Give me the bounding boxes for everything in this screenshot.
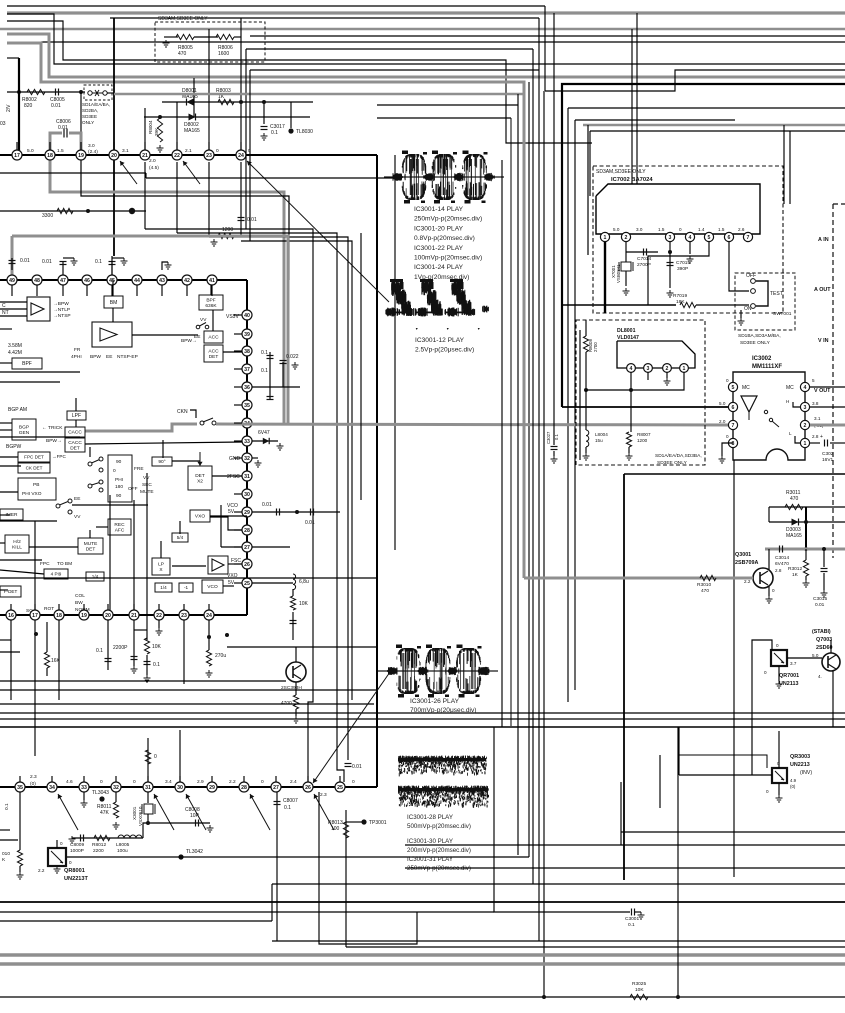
wire stub rowA pin 50 <box>49 142 51 150</box>
ground pin33 <box>81 800 88 807</box>
pin 25 row E <box>335 782 345 792</box>
function block BGP GEN <box>12 419 36 440</box>
IC7002 pin 1 <box>600 232 609 241</box>
svg-text:▼: ▼ <box>415 327 418 331</box>
wire pin23 dropd <box>183 620 185 684</box>
wire vert pin24 drop <box>240 18 242 155</box>
ground R8007 <box>626 453 633 460</box>
switch CKN <box>200 421 204 425</box>
wire Q3001 collector <box>768 552 770 570</box>
svg-text:2.6: 2.6 <box>738 227 745 232</box>
svg-text:0: 0 <box>60 841 63 846</box>
wire stub rowD pin 184 <box>183 604 185 610</box>
wire 10K link <box>146 630 148 640</box>
wire FSC to pin26 <box>228 563 242 565</box>
svg-text:NT: NT <box>2 310 9 316</box>
svg-text:MC: MC <box>786 385 794 391</box>
svg-text:010: 010 <box>2 851 10 857</box>
pin 22 row A <box>172 150 182 160</box>
svg-text:ACC: ACC <box>208 335 219 341</box>
wire net y102 <box>162 101 313 103</box>
wire DL pin4 down <box>630 372 632 432</box>
svg-text:1200: 1200 <box>222 227 233 233</box>
svg-text:1.5: 1.5 <box>57 148 64 154</box>
wire cap 0.01 left stub <box>11 258 13 270</box>
wire pin31 up <box>147 738 149 782</box>
svg-text:FPC DET: FPC DET <box>24 455 44 460</box>
wire 10K-cap <box>146 655 148 675</box>
svg-text:0: 0 <box>216 148 219 154</box>
wire stub colC pin 29 <box>234 511 242 513</box>
svg-text:2.2: 2.2 <box>38 868 45 873</box>
pin 20 row A <box>109 150 119 160</box>
test point TL8030 <box>288 128 293 133</box>
wire bottom y947 <box>346 946 845 948</box>
wire TP3001 link <box>346 821 362 823</box>
svg-text:42: 42 <box>184 278 190 284</box>
svg-text:26: 26 <box>305 785 311 791</box>
svg-text:250mVp-p(20msec.div): 250mVp-p(20msec.div) <box>414 216 482 223</box>
wire y868 <box>405 867 845 869</box>
svg-text:X3001: X3001 <box>132 806 137 820</box>
svg-text:35: 35 <box>244 403 250 409</box>
svg-text:ROT: ROT <box>44 606 54 612</box>
wire det2 right <box>212 475 242 477</box>
wire gray right r3 <box>583 124 845 127</box>
svg-text:820: 820 <box>24 103 33 109</box>
svg-text:2.3: 2.3 <box>30 774 37 780</box>
svg-text:1/4: 1/4 <box>160 585 167 590</box>
wire L1 path <box>7 14 845 64</box>
IC7002 pin 6 <box>724 232 733 241</box>
wire bottom nest jog <box>319 792 417 944</box>
pin 34 row E <box>47 782 57 792</box>
wire QR7001 left route <box>752 640 772 775</box>
svg-text:▼: ▼ <box>446 327 449 331</box>
svg-text:27: 27 <box>273 785 279 791</box>
svg-text:COL: COL <box>75 593 85 599</box>
svg-text:SD3AM,SD3EE ONLY: SD3AM,SD3EE ONLY <box>596 169 646 175</box>
pin 31 col C <box>242 471 252 481</box>
function block LP X <box>152 558 170 575</box>
svg-text:LP: LP <box>158 561 164 567</box>
wire IC7002 pin4 drop <box>689 242 691 254</box>
transistor 2SC3930 <box>286 662 306 682</box>
svg-text:4.42M: 4.42M <box>8 350 22 356</box>
wire R8007 bot <box>628 447 630 453</box>
svg-text:TEST: TEST <box>770 291 783 297</box>
svg-text:A OUT: A OUT <box>814 287 831 293</box>
wire nest y49 <box>246 48 533 50</box>
svg-text:7: 7 <box>732 423 735 429</box>
wire gray C3014 <box>765 548 845 551</box>
callout arrow pin 31 <box>154 794 174 830</box>
resistor 1200 <box>218 233 234 238</box>
svg-text:0.01: 0.01 <box>42 259 52 265</box>
IC7002 pin 4 <box>685 232 694 241</box>
wire IC7002 pin5 route <box>648 242 709 305</box>
svg-text:0.1: 0.1 <box>628 922 635 928</box>
svg-text:1: 1 <box>604 235 607 241</box>
junction R3025 left <box>542 995 546 999</box>
function block CK DET <box>18 463 50 473</box>
svg-text:0.1: 0.1 <box>284 805 291 811</box>
wire QR8001 top <box>56 840 58 848</box>
wire bottom y884 <box>272 883 845 885</box>
function block PB VXO <box>18 478 56 500</box>
svg-text:39: 39 <box>244 332 250 338</box>
pin 36 col C <box>242 382 252 392</box>
svg-text:28: 28 <box>244 528 250 534</box>
wire vert pin22 drop low <box>176 162 178 233</box>
svg-text:DET: DET <box>195 473 205 479</box>
svg-text:4700: 4700 <box>281 700 292 706</box>
capacitor C3015 <box>821 568 828 570</box>
wire 16K bot <box>46 668 48 676</box>
wire cap 0.1 pin45 <box>111 262 113 275</box>
svg-text:39K: 39K <box>154 127 159 136</box>
wire IC3002 pin8 gnd <box>722 443 733 456</box>
svg-text:0.8Vp-p(20msec.div): 0.8Vp-p(20msec.div) <box>414 235 475 242</box>
wire QR3003 left <box>679 774 772 776</box>
wire stub colC pin 38 <box>234 350 242 352</box>
wire R3012 top <box>805 549 807 560</box>
svg-text:18: 18 <box>56 613 62 619</box>
wire LPX right <box>172 565 206 567</box>
svg-text:24: 24 <box>238 153 244 159</box>
junction 270u top <box>207 635 211 639</box>
IC3002 pin 8 left <box>728 438 737 447</box>
wire R8008 top <box>585 320 587 336</box>
svg-text:0.01: 0.01 <box>305 520 315 526</box>
switch VV/EE <box>196 325 200 329</box>
pin 33 col C <box>242 436 252 446</box>
resistor left edge <box>17 850 22 866</box>
wire sw gnd link <box>740 310 742 318</box>
svg-text:636K: 636K <box>205 303 217 309</box>
svg-text:ON: ON <box>744 306 752 312</box>
svg-text:DET: DET <box>86 547 96 553</box>
resistor R3012 <box>803 560 808 576</box>
function block quarter a <box>86 572 104 581</box>
function block FPC DET <box>18 452 50 462</box>
capacitor 0.1b rowD <box>144 661 151 663</box>
stub left y363 <box>0 362 12 364</box>
resistor R8008 <box>583 336 588 352</box>
svg-text:REC: REC <box>114 522 125 528</box>
jumper connector <box>88 91 92 95</box>
function block CACC <box>65 427 85 437</box>
ground SW7001 <box>738 318 745 325</box>
wire gray CACC out <box>85 424 197 431</box>
IC3002 internal switch <box>764 410 767 413</box>
junction 3300 net <box>86 209 90 213</box>
svg-text:OFF: OFF <box>128 486 138 492</box>
wire vert pin23 drop low <box>208 162 210 237</box>
wire left y382 <box>0 381 60 383</box>
svg-text:0.022: 0.022 <box>286 354 299 360</box>
function block VCO <box>202 580 223 593</box>
svg-text:→NTLP: →NTLP <box>53 307 70 313</box>
capacitor C3017 <box>261 126 268 128</box>
svg-text:0: 0 <box>679 227 682 232</box>
wire vert 632 <box>631 29 633 184</box>
svg-text:1600: 1600 <box>218 51 229 57</box>
svg-text:2: 2 <box>625 235 628 241</box>
svg-text:48: 48 <box>34 278 40 284</box>
wire stub colC pin 34 <box>234 422 242 424</box>
svg-text:UN2213T: UN2213T <box>64 876 89 882</box>
wire stub rowB pin 12 <box>11 285 13 296</box>
IC3002 pin 3 right <box>800 402 809 411</box>
wire internal v163 <box>162 440 164 458</box>
svg-text:0.1: 0.1 <box>153 662 160 668</box>
wire thick y407 to pin6 <box>562 406 733 408</box>
svg-text:1200: 1200 <box>637 438 648 443</box>
svg-text:470: 470 <box>178 51 187 57</box>
wire q-res bot <box>295 709 297 716</box>
wire stub rowB pin 187 <box>186 285 188 296</box>
svg-text:25: 25 <box>337 785 343 791</box>
pin 38 col C <box>242 346 252 356</box>
svg-text:5: 5 <box>812 378 815 383</box>
pin 26 row E <box>303 782 313 792</box>
wire internal v221 <box>220 505 222 547</box>
svg-text:IC3001-12 PLAY: IC3001-12 PLAY <box>415 337 465 344</box>
wire R8005-R8006 <box>194 36 218 38</box>
stub left y515 <box>0 514 10 516</box>
svg-text:0: 0 <box>352 779 355 785</box>
inductor 6.8u <box>293 574 296 590</box>
wire C3021 right <box>830 442 845 444</box>
wire IC7002 pin1 thick <box>604 242 606 313</box>
svg-text:L8004: L8004 <box>595 432 608 437</box>
wire BM down <box>112 308 114 322</box>
svg-text:→NTSP: →NTSP <box>53 313 71 319</box>
svg-text:3: 3 <box>804 405 807 411</box>
DL8001 pin 1 <box>680 364 689 373</box>
switch EE/VV <box>56 499 72 514</box>
svg-text:47K: 47K <box>100 810 110 816</box>
wire top bus 4 <box>41 41 845 43</box>
wire gray pin34 to IC3002 pin7 <box>216 424 733 425</box>
dashed jumper box <box>84 85 112 100</box>
waveform staircase IC3001-12 <box>385 279 489 317</box>
svg-text:PB: PB <box>33 482 39 488</box>
svg-text:BGP AM: BGP AM <box>8 407 27 413</box>
wire vert 790 <box>789 131 791 204</box>
capacitor C8008 <box>195 820 197 827</box>
wire stub rowB pin 112 <box>111 285 113 296</box>
ground C8009 <box>69 836 76 843</box>
wire Q7003 down <box>832 671 834 727</box>
IC3002 pin 6 left <box>728 402 737 411</box>
svg-text:19: 19 <box>81 613 87 619</box>
wire pin20d drop <box>107 620 109 670</box>
wire y640 stub <box>0 639 11 641</box>
wire stub rowE pin 84 <box>83 776 85 782</box>
svg-text:MM1111XF: MM1111XF <box>752 364 782 370</box>
function block 90deg <box>152 457 172 466</box>
wire dl left v <box>579 330 581 460</box>
wire vert x545 top <box>544 6 546 91</box>
IC3002 outline <box>733 372 805 460</box>
svg-text:IC3001-20 PLAY: IC3001-20 PLAY <box>414 225 464 232</box>
capacitor 2200P <box>131 656 138 658</box>
wire pin17 thick <box>18 58 20 155</box>
junction pin29 net <box>295 510 299 514</box>
DL8001 outline <box>617 341 695 368</box>
wire y437 internal <box>0 436 80 438</box>
wire nest y70 <box>250 69 539 71</box>
stub left y570 <box>0 570 44 574</box>
ground rowB b <box>71 258 78 265</box>
pin 41 row B <box>207 275 217 285</box>
svg-text:0.01: 0.01 <box>58 125 68 131</box>
wire pin43 gnd link <box>162 262 168 270</box>
wire 54 up <box>179 521 181 534</box>
waveform noise band 2 <box>398 786 489 809</box>
svg-text:VSB0841: VSB0841 <box>616 264 621 283</box>
svg-text:L: L <box>789 431 792 436</box>
svg-text:EE: EE <box>106 354 112 360</box>
svg-text:CKN: CKN <box>177 409 188 415</box>
wire vert 575 <box>574 120 576 690</box>
svg-text:CACC: CACC <box>68 440 82 446</box>
wire R3011 left drop <box>768 507 770 522</box>
wire y520 internal <box>0 520 57 522</box>
svg-text:0: 0 <box>726 434 729 439</box>
wire y173 <box>0 172 146 174</box>
svg-text:45: 45 <box>109 278 115 284</box>
IC7002 pin 3 <box>665 232 674 241</box>
wire nest v246 <box>245 49 247 229</box>
pin 27 col C <box>242 542 252 552</box>
IC3002 pin 2 right <box>800 420 809 429</box>
wire stub rowB pin 63 <box>62 285 64 296</box>
wire 16K stub <box>46 622 48 652</box>
ground Q3001 <box>766 596 773 603</box>
dashed box SD3AM SD3EE <box>593 166 783 313</box>
wire Q3001 emitter <box>768 586 770 596</box>
svg-text:40: 40 <box>244 313 250 319</box>
wire top bus 2 <box>110 17 539 19</box>
stub left y590 <box>0 589 8 591</box>
svg-text:EE: EE <box>74 496 80 502</box>
wire y105 stub <box>377 104 518 106</box>
wire D3003 net <box>769 521 845 523</box>
wire jog x146 <box>145 173 147 178</box>
capacitor 0.01 rowB b <box>60 261 67 263</box>
svg-text:IC3001-26 PLAY: IC3001-26 PLAY <box>410 698 460 705</box>
wire stub colC pin 40 <box>234 314 242 316</box>
svg-text:2200P: 2200P <box>113 645 128 651</box>
svg-text:3.0: 3.0 <box>88 143 95 149</box>
svg-text:FRE: FRE <box>134 466 144 472</box>
transistor Q3001 <box>753 568 773 588</box>
wire internal v90 <box>89 447 91 457</box>
wire hkill right <box>29 546 78 548</box>
wire pin27 internal <box>221 546 242 548</box>
pin 21 row A <box>140 150 150 160</box>
capacitor C8006 <box>63 129 65 138</box>
svg-text:24: 24 <box>206 613 212 619</box>
function block ACC <box>204 331 223 343</box>
wire stub rowD pin 108 <box>107 604 109 610</box>
wire mute up <box>89 530 91 538</box>
wire pin32 right <box>252 457 258 459</box>
junction y102 C3017 <box>262 100 266 104</box>
svg-text:30: 30 <box>177 785 183 791</box>
wire right r1 <box>568 107 845 109</box>
wire DL pin3 down <box>647 372 649 380</box>
wire q-collector <box>295 647 297 662</box>
svg-text:QR8001: QR8001 <box>64 868 85 874</box>
wire pin30 up <box>179 730 181 782</box>
stub left y430 <box>0 429 12 431</box>
wire pin17 dropd <box>34 620 36 756</box>
wire thick T1 <box>562 84 845 407</box>
wire R8013 vert <box>345 810 347 947</box>
svg-text:7: 7 <box>747 235 750 241</box>
pin 35 col C <box>242 400 252 410</box>
svg-text:38: 38 <box>244 349 250 355</box>
pin 29 row E <box>207 782 217 792</box>
wire vert 734 <box>733 460 735 877</box>
svg-text:2.2: 2.2 <box>229 779 236 785</box>
pin 34 col C <box>242 418 252 428</box>
svg-text:FR: FR <box>74 347 81 353</box>
wire bottom y941 <box>272 940 845 942</box>
capacitor 0.01 rowB left <box>9 260 16 262</box>
svg-text:3.58M: 3.58M <box>8 343 22 349</box>
wire L contact <box>795 436 800 443</box>
callout arrow pin 22 <box>183 161 200 184</box>
wire y118 stub <box>377 117 511 119</box>
pin 21 row D <box>129 610 139 620</box>
svg-text:35: 35 <box>17 785 23 791</box>
inductor L8005 <box>118 835 142 838</box>
wire stub rowB pin 212 <box>211 285 213 296</box>
pin 31 row E <box>143 782 153 792</box>
wire L8004 top <box>585 390 587 430</box>
resistor 4700 <box>293 695 298 709</box>
IC7002 outline <box>596 184 760 234</box>
svg-text:BPW: BPW <box>90 354 101 360</box>
svg-text:IC3001-30 PLAY: IC3001-30 PLAY <box>407 838 453 845</box>
svg-text:GEN: GEN <box>19 430 30 436</box>
svg-text:2: 2 <box>804 423 807 429</box>
svg-text:44: 44 <box>134 278 140 284</box>
svg-text:C302: C302 <box>822 451 834 457</box>
capacitor C7015 <box>667 262 674 264</box>
wire pin33 right <box>252 440 278 442</box>
function block BPF <box>12 358 42 369</box>
svg-text:18K: 18K <box>676 299 685 305</box>
junction y102 x241 <box>239 100 243 104</box>
pin 43 row B <box>157 275 167 285</box>
svg-text:33: 33 <box>244 439 250 445</box>
wire pin25 right <box>252 582 293 584</box>
wire jog x272 <box>271 884 273 921</box>
crystal X7001 <box>621 262 631 271</box>
pin 19 row A <box>76 150 86 160</box>
diode D8001 <box>187 99 194 106</box>
svg-text:AFC: AFC <box>115 528 125 534</box>
IC7002 pin 7 <box>743 232 752 241</box>
svg-text:2.4: 2.4 <box>290 779 297 785</box>
wire med below pin19 <box>81 155 289 280</box>
